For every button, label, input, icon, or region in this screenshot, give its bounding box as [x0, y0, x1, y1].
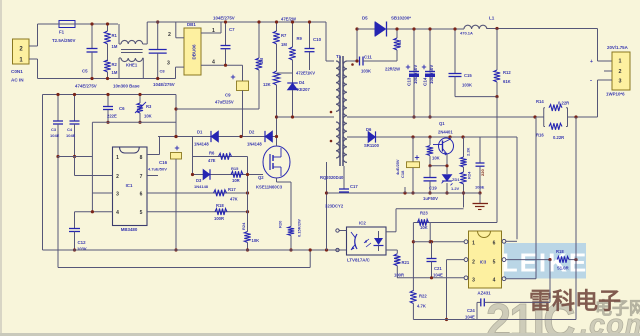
svg-text:1: 1	[472, 241, 475, 247]
svg-text:10R: 10R	[232, 178, 240, 183]
svg-text:1uF50V: 1uF50V	[423, 196, 438, 201]
svg-text:2: 2	[472, 260, 475, 266]
svg-text:C10: C10	[313, 37, 322, 42]
svg-text:R24: R24	[241, 222, 246, 230]
svg-text:104E/275V: 104E/275V	[213, 16, 235, 21]
svg-text:104E: 104E	[433, 272, 443, 277]
svg-text:LTV817A/C: LTV817A/C	[347, 258, 371, 263]
svg-text:R7: R7	[281, 33, 287, 38]
svg-text:1: 1	[619, 59, 622, 65]
svg-text:C9: C9	[225, 93, 231, 98]
svg-text:D3: D3	[196, 178, 202, 183]
svg-text:10n300 Base: 10n300 Base	[113, 84, 140, 89]
svg-text:1: 1	[116, 155, 119, 161]
svg-text:3: 3	[619, 79, 622, 85]
svg-text:6: 6	[493, 241, 496, 247]
svg-text:C11: C11	[364, 55, 372, 60]
svg-text:104E: 104E	[66, 133, 76, 138]
svg-text:20V/1.75A: 20V/1.75A	[607, 45, 629, 50]
svg-text:R1: R1	[112, 33, 118, 38]
svg-text:10K: 10K	[420, 225, 428, 230]
svg-text:4: 4	[212, 60, 215, 66]
svg-text:4: 4	[493, 278, 496, 284]
svg-text:100R: 100R	[394, 272, 404, 277]
svg-text:2: 2	[116, 174, 119, 180]
svg-text:C4: C4	[67, 127, 73, 132]
svg-text:R2: R2	[112, 62, 118, 67]
svg-text:220: 220	[480, 169, 485, 176]
svg-text:1N4148: 1N4148	[247, 142, 262, 147]
svg-text:R18: R18	[216, 203, 224, 208]
svg-text:C8: C8	[160, 69, 166, 74]
svg-text:5: 5	[140, 210, 143, 216]
svg-text:3: 3	[472, 278, 475, 284]
svg-text:472E/1KV: 472E/1KV	[296, 71, 315, 76]
svg-text:R6: R6	[209, 151, 215, 156]
svg-text:10uF/50V: 10uF/50V	[413, 65, 418, 84]
svg-text:1N4148: 1N4148	[194, 142, 209, 147]
svg-text:R23: R23	[420, 211, 428, 216]
svg-text:Q2: Q2	[258, 175, 264, 180]
svg-text:470.1A: 470.1A	[460, 31, 473, 36]
svg-text:D2: D2	[249, 130, 255, 135]
svg-text:AC IN: AC IN	[11, 78, 24, 83]
svg-text:C15: C15	[464, 73, 472, 78]
svg-text:106E: 106E	[475, 185, 485, 190]
svg-text:0.22R: 0.22R	[553, 135, 564, 140]
svg-text:7: 7	[140, 174, 143, 180]
svg-text:KSE11N60C3: KSE11N60C3	[256, 185, 283, 190]
svg-text:R20: R20	[278, 220, 283, 228]
svg-text:T2.5A/250V: T2.5A/250V	[52, 38, 76, 43]
svg-text:IC2: IC2	[359, 221, 366, 226]
svg-text:1M: 1M	[112, 44, 118, 49]
svg-text:KE207: KE207	[297, 87, 310, 92]
svg-text:12K: 12K	[263, 82, 271, 87]
svg-text:5: 5	[493, 260, 496, 266]
svg-text:+: +	[590, 59, 593, 65]
svg-text:MB3480: MB3480	[121, 227, 138, 232]
svg-text:KHE1: KHE1	[126, 63, 138, 68]
svg-text:22R/2W: 22R/2W	[385, 67, 400, 72]
svg-text:S1.0R: S1.0R	[557, 266, 569, 271]
svg-text:3: 3	[116, 192, 119, 198]
svg-text:R16: R16	[536, 133, 544, 138]
svg-text:LEIKE: LEIKE	[502, 248, 589, 278]
svg-text:C18: C18	[400, 170, 405, 178]
svg-text:103K: 103K	[77, 247, 87, 252]
svg-text:F1: F1	[59, 30, 65, 35]
svg-text:C14: C14	[423, 77, 428, 86]
svg-text:C19: C19	[429, 186, 437, 191]
svg-text:4.7uE/50V: 4.7uE/50V	[148, 167, 167, 172]
svg-text:C17: C17	[350, 184, 358, 189]
svg-text:C7: C7	[229, 27, 235, 32]
svg-text:R21: R21	[402, 260, 410, 265]
svg-text:D4: D4	[299, 80, 305, 85]
svg-text:R22: R22	[419, 294, 427, 299]
svg-text:C16: C16	[159, 160, 168, 165]
svg-text:D5: D5	[362, 16, 368, 21]
svg-text:R18: R18	[556, 249, 564, 254]
svg-text:C0N1: C0N1	[11, 69, 23, 74]
svg-text:4.7K: 4.7K	[417, 304, 426, 309]
svg-text:T1: T1	[336, 54, 342, 59]
svg-text:0.22R: 0.22R	[558, 101, 569, 106]
svg-text:DBU06: DBU06	[192, 44, 197, 60]
svg-text:R17: R17	[228, 187, 236, 192]
svg-text:103K: 103K	[462, 83, 472, 88]
svg-text:10K: 10K	[432, 156, 440, 161]
svg-text:100R: 100R	[214, 216, 224, 221]
svg-text:C5: C5	[82, 69, 88, 74]
svg-text:R15: R15	[231, 166, 239, 171]
svg-text:61K: 61K	[503, 79, 511, 84]
svg-text:IC3: IC3	[480, 260, 487, 265]
svg-text:C13: C13	[407, 77, 412, 86]
svg-text:47E: 47E	[208, 158, 216, 163]
svg-text:1N4148: 1N4148	[194, 184, 209, 189]
svg-text:10K: 10K	[252, 238, 260, 243]
svg-text:D6: D6	[366, 127, 372, 132]
svg-text:DB1: DB1	[187, 22, 196, 27]
svg-text:2N4401: 2N4401	[438, 130, 453, 135]
svg-text:47E/2W: 47E/2W	[281, 17, 296, 22]
svg-text:3: 3	[167, 61, 170, 67]
svg-text:4uE/25V: 4uE/25V	[395, 159, 400, 175]
svg-text:C21: C21	[434, 266, 442, 271]
svg-text:1WP10*6: 1WP10*6	[606, 92, 625, 97]
svg-text:R9: R9	[297, 36, 303, 41]
svg-text:323DCY2: 323DCY2	[325, 204, 344, 209]
svg-text:SR1100: SR1100	[364, 143, 380, 148]
svg-text:103K: 103K	[361, 69, 371, 74]
svg-text:47uE/25V: 47uE/25V	[215, 100, 234, 105]
svg-text:1M: 1M	[259, 58, 264, 64]
svg-text:2: 2	[168, 32, 171, 38]
svg-text:1M: 1M	[112, 70, 118, 75]
svg-text:4: 4	[116, 210, 119, 216]
svg-text:222E: 222E	[107, 114, 117, 119]
svg-text:104E/275V: 104E/275V	[153, 82, 175, 87]
svg-text:C3: C3	[51, 127, 57, 132]
svg-text:R24: R24	[467, 171, 472, 179]
svg-text:104E: 104E	[50, 133, 60, 138]
svg-text:Q1: Q1	[439, 121, 445, 126]
svg-text:2: 2	[619, 69, 622, 75]
svg-text:8: 8	[140, 155, 143, 161]
svg-text:10K: 10K	[144, 114, 152, 119]
svg-text:1M: 1M	[281, 42, 287, 47]
svg-text:474E/275V: 474E/275V	[75, 84, 97, 89]
svg-text:47K: 47K	[230, 197, 238, 202]
svg-text:ZD1: ZD1	[452, 177, 460, 182]
svg-text:C12: C12	[78, 240, 87, 245]
svg-text:R14: R14	[536, 99, 544, 104]
svg-text:2.2K: 2.2K	[466, 147, 471, 156]
svg-text:AZ431: AZ431	[477, 291, 491, 296]
svg-text:104E: 104E	[465, 315, 475, 320]
svg-text:C24: C24	[467, 308, 475, 313]
svg-text:雷科电子: 雷科电子	[529, 288, 621, 314]
svg-text:IC1: IC1	[126, 183, 133, 188]
svg-text:R3: R3	[146, 104, 152, 109]
svg-text:C6: C6	[119, 106, 125, 111]
svg-text:6: 6	[140, 192, 143, 198]
svg-text:1.2V: 1.2V	[451, 186, 460, 191]
svg-text:10uF/50V: 10uF/50V	[429, 65, 434, 84]
svg-text:R11: R11	[397, 39, 402, 47]
svg-text:L1: L1	[489, 16, 495, 21]
svg-text:R12: R12	[503, 70, 511, 75]
svg-text:D1: D1	[197, 130, 203, 135]
svg-text:RQ2020D40: RQ2020D40	[320, 175, 344, 180]
svg-text:SB10200*: SB10200*	[391, 16, 411, 21]
svg-text:0.15R/2W: 0.15R/2W	[297, 219, 302, 237]
svg-text:-: -	[590, 79, 592, 85]
